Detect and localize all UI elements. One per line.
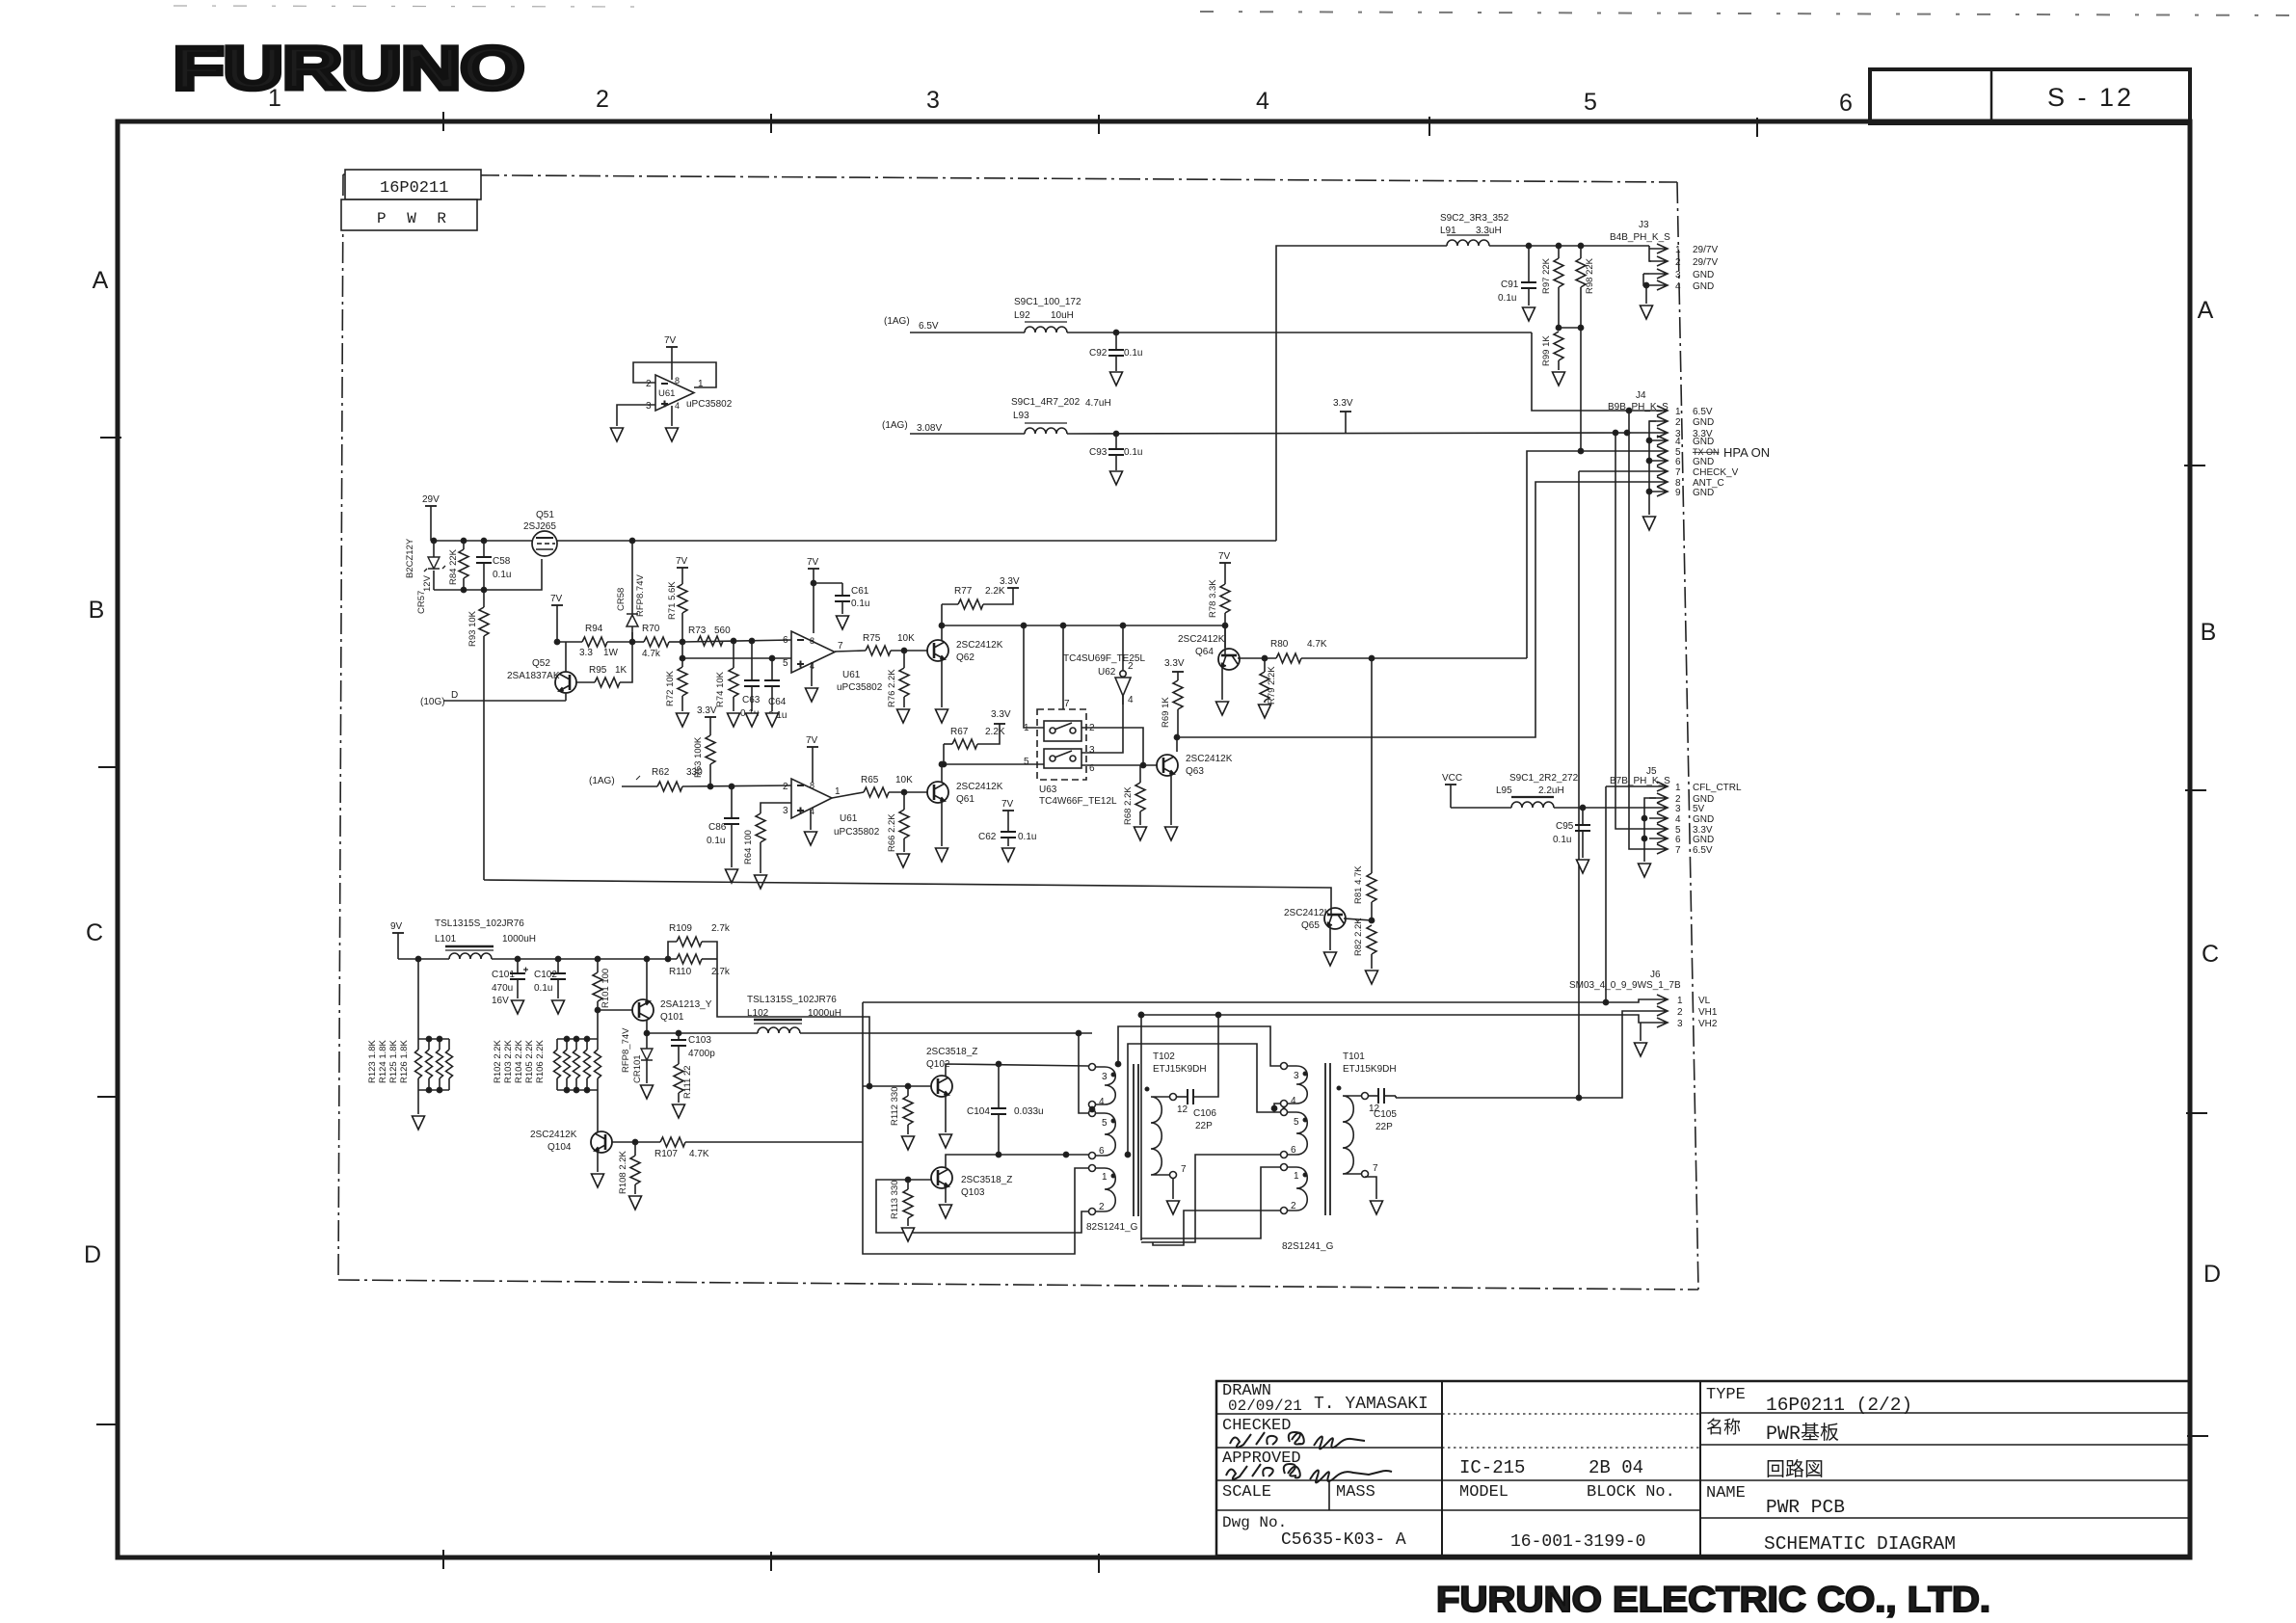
- resistor R108 2.2K: [618, 1142, 640, 1194]
- svg-text:22P: 22P: [1195, 1121, 1213, 1131]
- wire Q63 emitter to ground: [1170, 776, 1172, 825]
- svg-text:CR58: CR58: [616, 588, 627, 611]
- svg-text:回路図: 回路図: [1766, 1458, 1824, 1482]
- capacitor C103 4700p: [671, 1033, 715, 1064]
- svg-text:R98 22K: R98 22K: [1585, 257, 1595, 294]
- wire plus line: [682, 642, 791, 658]
- resistor R98 22K: [1576, 246, 1595, 451]
- svg-text:Q101: Q101: [660, 1012, 684, 1023]
- primary winding 3-4: [1281, 1063, 1288, 1070]
- svg-text:5: 5: [783, 658, 788, 669]
- svg-text:7V: 7V: [550, 594, 563, 604]
- svg-text:U62: U62: [1098, 667, 1116, 678]
- svg-text:Q52: Q52: [532, 658, 550, 669]
- wire VH2 line from C106: [1141, 1015, 1649, 1097]
- inductor L92 10uH: [1014, 297, 1081, 333]
- ground: [1553, 372, 1565, 386]
- svg-text:1: 1: [1102, 1172, 1108, 1183]
- wire 6.5V rail: [910, 333, 1649, 411]
- svg-text:R78 3.3K: R78 3.3K: [1208, 579, 1218, 618]
- wire CHECK_V vertical: [1579, 471, 1649, 1097]
- svg-text:2.2K: 2.2K: [985, 586, 1005, 597]
- svg-text:5: 5: [1584, 89, 1597, 116]
- svg-text:C: C: [86, 919, 103, 946]
- wire U63 pin1 riser to bus: [1024, 625, 1044, 728]
- svg-text:J6: J6: [1650, 970, 1661, 980]
- svg-text:10uH: 10uH: [1051, 310, 1074, 321]
- wire Q102 emitter to ground: [945, 1097, 947, 1132]
- svg-text:Q104: Q104: [547, 1142, 572, 1153]
- svg-text:R70: R70: [642, 624, 660, 634]
- wire drive sub-box outline: [863, 1002, 1088, 1254]
- svg-text:SCHEMATIC DIAGRAM: SCHEMATIC DIAGRAM: [1764, 1533, 1956, 1555]
- wire U63 pin6 to Q63 base: [1081, 764, 1157, 766]
- resistor R70 4.7k: [632, 624, 682, 659]
- transistor Q62 2SC2412K: [927, 640, 1003, 663]
- svg-text:82S1241_G: 82S1241_G: [1086, 1222, 1138, 1233]
- svg-text:R124 1.8K: R124 1.8K: [378, 1039, 388, 1083]
- svg-text:2SC2412K: 2SC2412K: [530, 1130, 577, 1140]
- right ticks: [2184, 466, 2208, 1436]
- svg-text:1: 1: [1675, 407, 1681, 417]
- svg-text:TC4SU69F_TE25L: TC4SU69F_TE25L: [1063, 653, 1145, 664]
- middle column dotted: [1442, 1413, 1700, 1415]
- svg-text:7V: 7V: [806, 735, 818, 746]
- svg-text:R123 1.8K: R123 1.8K: [367, 1039, 378, 1083]
- svg-text:C5635-K03- A: C5635-K03- A: [1281, 1530, 1406, 1550]
- resistor R77 2.2K: [942, 586, 1013, 609]
- svg-text:3: 3: [783, 806, 788, 816]
- wire Q102 collector to T102 pin3: [946, 1064, 1088, 1076]
- node 7V supply for U61: [664, 335, 678, 380]
- transistor Q103 2SC3518_Z: [931, 1167, 1012, 1198]
- svg-text:3.3: 3.3: [579, 648, 593, 658]
- svg-text:7V: 7V: [1218, 551, 1231, 562]
- svg-text:2SA1213_Y: 2SA1213_Y: [660, 999, 712, 1010]
- resistor R81 4.7K: [1353, 658, 1376, 920]
- svg-text:8: 8: [675, 376, 680, 386]
- svg-text:HPA ON: HPA ON: [1723, 445, 1770, 460]
- svg-text:CR57: CR57: [416, 591, 427, 614]
- svg-text:C61: C61: [851, 586, 869, 597]
- capacitor C61 0.1u: [814, 583, 869, 614]
- svg-text:TC4W66F_TE12L: TC4W66F_TE12L: [1039, 796, 1117, 807]
- svg-text:29/7V: 29/7V: [1693, 245, 1718, 255]
- svg-text:560: 560: [714, 625, 731, 636]
- svg-text:B7B_PH_K_S: B7B_PH_K_S: [1610, 776, 1670, 786]
- wire output: [832, 792, 864, 798]
- svg-text:C104: C104: [967, 1106, 990, 1117]
- svg-text:4.7uH: 4.7uH: [1085, 398, 1111, 409]
- svg-text:Q51: Q51: [536, 510, 554, 520]
- ground: [1523, 307, 1535, 321]
- svg-text:VH1: VH1: [1698, 1007, 1718, 1018]
- resistor R97 22K: [1541, 246, 1563, 328]
- svg-text:7: 7: [1181, 1164, 1187, 1175]
- node 3.3V tap: [1333, 398, 1353, 433]
- svg-text:R126 1.8K: R126 1.8K: [399, 1039, 410, 1083]
- svg-text:2SC2412K: 2SC2412K: [1284, 908, 1331, 918]
- svg-text:R113 330: R113 330: [890, 1181, 900, 1220]
- node 29V supply: [422, 494, 440, 541]
- svg-text:2SC2412K: 2SC2412K: [956, 640, 1003, 651]
- node 3.3V: [1000, 576, 1020, 588]
- resistor R99 1K: [1541, 332, 1563, 370]
- svg-text:(1AG): (1AG): [884, 316, 910, 327]
- svg-text:C: C: [2202, 941, 2219, 968]
- svg-text:6: 6: [1839, 90, 1853, 117]
- inverter U62 TC4SU69F_TE25L: [1063, 625, 1145, 705]
- wire Q62 collector bus to R78 node: [942, 625, 1225, 626]
- svg-text:29/7V: 29/7V: [1693, 257, 1718, 268]
- svg-text:C95: C95: [1556, 821, 1574, 832]
- wire 6.5V drop to J5 pin7: [1629, 411, 1649, 849]
- ground: [611, 428, 624, 441]
- svg-text:3: 3: [1675, 804, 1681, 814]
- svg-text:D: D: [2203, 1261, 2221, 1288]
- wire T101 pin2 loop: [1153, 1211, 1280, 1245]
- svg-text:Q61: Q61: [956, 794, 974, 805]
- node 7V: [676, 556, 688, 584]
- svg-text:3.3V: 3.3V: [1333, 398, 1353, 409]
- resistor R75 10K: [863, 633, 927, 655]
- resistor R74 10K: [715, 641, 738, 711]
- connector J4 B9B_PH_K_S: [1608, 390, 1770, 530]
- svg-text:0.1u: 0.1u: [1553, 835, 1571, 845]
- svg-text:L93: L93: [1013, 411, 1029, 421]
- svg-text:6.5V: 6.5V: [1693, 407, 1713, 417]
- svg-text:R107: R107: [654, 1149, 678, 1159]
- resistor R73 560: [688, 625, 731, 646]
- svg-text:5V: 5V: [1693, 804, 1705, 814]
- svg-text:4.7K: 4.7K: [689, 1149, 709, 1159]
- polarity dots: [1111, 1073, 1114, 1076]
- core: [1324, 1063, 1326, 1215]
- column lines: [1441, 1381, 1443, 1556]
- svg-text:R105 2.2K: R105 2.2K: [524, 1039, 535, 1083]
- ground: [1366, 971, 1378, 984]
- svg-text:A: A: [2198, 297, 2214, 324]
- svg-text:S9C1_100_172: S9C1_100_172: [1014, 297, 1081, 307]
- node 3.3V: [991, 709, 1011, 724]
- resistor R112 330: [890, 1086, 913, 1134]
- svg-text:C101: C101: [492, 970, 515, 980]
- svg-text:3: 3: [1089, 745, 1095, 756]
- wire 29V rail to L91: [1276, 246, 1447, 541]
- gnd bracket pins 2,4,6,9: [1649, 421, 1656, 515]
- svg-text:S9C1_4R7_202: S9C1_4R7_202: [1011, 397, 1081, 408]
- junction: [731, 638, 735, 643]
- svg-text:R63 100K: R63 100K: [693, 736, 704, 778]
- primary winding 1-2: [1281, 1164, 1288, 1171]
- capacitor C92 0.1u: [1089, 333, 1142, 371]
- svg-text:R125 1.8K: R125 1.8K: [388, 1039, 399, 1083]
- svg-text:R71 5.6K: R71 5.6K: [667, 581, 678, 620]
- svg-text:0.033u: 0.033u: [1014, 1106, 1044, 1117]
- resistor R101 100: [593, 959, 611, 1010]
- svg-text:(10G): (10G): [420, 697, 445, 707]
- wire Q65 collector: [1344, 918, 1372, 920]
- svg-text:2: 2: [783, 782, 788, 792]
- node 7V with C62: [1001, 799, 1014, 832]
- wire feedback loop U61: [617, 362, 716, 426]
- wire Q64 base from bus: [1224, 625, 1226, 655]
- svg-text:T. YAMASAKI: T. YAMASAKI: [1314, 1395, 1428, 1414]
- ground: [766, 713, 779, 727]
- svg-text:R111 22: R111 22: [682, 1065, 693, 1099]
- junction: [431, 538, 436, 543]
- wire T102 pin5 drive from L102: [1079, 1033, 1088, 1113]
- svg-text:CR101: CR101: [632, 1054, 643, 1083]
- svg-text:4: 4: [1675, 814, 1681, 825]
- capacitor C106 22P: [1177, 1089, 1216, 1131]
- 16P0211 / PWR label boxes: [341, 170, 481, 230]
- svg-text:9V: 9V: [390, 921, 403, 932]
- svg-text:2: 2: [1099, 1202, 1105, 1212]
- svg-text:VCC: VCC: [1442, 773, 1462, 784]
- wire 29V rail: [431, 540, 1276, 542]
- svg-text:6: 6: [1675, 835, 1681, 845]
- wire op-amp V- to ground: [810, 810, 812, 830]
- svg-text:0.1u: 0.1u: [1018, 832, 1036, 842]
- ground: [837, 616, 849, 629]
- svg-text:2: 2: [1675, 417, 1681, 428]
- resistor R72 10K: [665, 658, 687, 711]
- ground: [1135, 827, 1147, 840]
- svg-text:NAME: NAME: [1706, 1484, 1746, 1503]
- resistor bank R102-R106 2.2K: [493, 1010, 601, 1131]
- wire ANT_C line from Q63 collector: [1177, 482, 1649, 737]
- svg-text:7V: 7V: [664, 335, 677, 346]
- ground: [666, 428, 679, 441]
- svg-text:2: 2: [1128, 661, 1134, 672]
- svg-text:S9C1_2R2_272: S9C1_2R2_272: [1509, 773, 1579, 784]
- svg-text:GND: GND: [1693, 814, 1714, 825]
- svg-text:R80: R80: [1270, 639, 1289, 650]
- svg-text:7: 7: [1675, 467, 1681, 478]
- svg-text:VL: VL: [1698, 996, 1711, 1006]
- svg-text:0.1u: 0.1u: [534, 983, 552, 994]
- ground: [726, 869, 738, 883]
- svg-text:2: 2: [1675, 257, 1681, 268]
- wire Q101 emitter up to rail / collector down: [646, 959, 648, 1033]
- svg-text:FURUNO ELECTRIC CO., LTD.: FURUNO ELECTRIC CO., LTD.: [1436, 1580, 1990, 1619]
- svg-text:6.5V: 6.5V: [1693, 845, 1713, 856]
- svg-text:C103: C103: [688, 1035, 711, 1046]
- scan noise top: [174, 6, 2296, 15]
- primary winding 3-4: [1089, 1064, 1096, 1071]
- svg-text:(1AG): (1AG): [882, 420, 908, 431]
- svg-text:R66 2.2K: R66 2.2K: [887, 813, 897, 852]
- polarity dots: [1303, 1072, 1306, 1075]
- svg-text:2SC3518_Z: 2SC3518_Z: [961, 1175, 1012, 1185]
- secondary winding 12-7: [1151, 1097, 1169, 1175]
- wire R101 to Q101 base: [598, 1009, 632, 1011]
- transistor Q64 2SC2412K: [1178, 634, 1240, 670]
- ground: [1110, 471, 1123, 485]
- ground: [1259, 705, 1271, 718]
- transformer T102 ETJ15K9DH: [1089, 1051, 1207, 1216]
- svg-text:R97 22K: R97 22K: [1541, 257, 1552, 294]
- svg-text:C91: C91: [1501, 279, 1519, 290]
- svg-text:SCALE: SCALE: [1222, 1483, 1271, 1502]
- svg-text:名称: 名称: [1706, 1418, 1741, 1439]
- svg-text:IC-215: IC-215: [1459, 1457, 1525, 1478]
- wire HPA ON to J4 pin5: [1527, 451, 1649, 658]
- svg-text:R93 10K: R93 10K: [467, 610, 478, 647]
- svg-text:0.1u: 0.1u: [1498, 293, 1516, 304]
- resistor R78 3.3K: [1208, 579, 1230, 648]
- svg-text:uPC35802: uPC35802: [837, 682, 883, 693]
- svg-text:R62: R62: [652, 767, 670, 778]
- svg-text:82S1241_G: 82S1241_G: [1282, 1241, 1334, 1252]
- right column rows: [1700, 1412, 2190, 1414]
- svg-text:J3: J3: [1639, 220, 1649, 230]
- transformer T101 ETJ15K9DH: [1281, 1051, 1397, 1215]
- svg-text:4: 4: [1099, 1097, 1105, 1107]
- svg-text:29V: 29V: [422, 494, 440, 505]
- wire T101 pin1 loop: [1141, 1167, 1280, 1238]
- wire Q65 base feed: [484, 880, 1331, 915]
- svg-text:B2CZ12Y: B2CZ12Y: [405, 538, 415, 578]
- svg-text:8: 8: [810, 636, 814, 646]
- resistor R107 4.7K: [654, 1137, 863, 1159]
- node 3.3V for R69: [1164, 658, 1185, 680]
- inductor L101 1000uH: [435, 918, 536, 959]
- svg-text:9: 9: [1675, 488, 1681, 498]
- svg-text:C102: C102: [534, 970, 557, 980]
- wire 3.3V drop to J5 pin5: [1615, 433, 1649, 829]
- capacitor C58 0.1u: [476, 541, 511, 590]
- svg-text:2.2uH: 2.2uH: [1538, 785, 1564, 796]
- transistor Q102 2SC3518_Z: [926, 1047, 977, 1097]
- wire U63 pin7 to bus: [1062, 625, 1064, 709]
- svg-text:4: 4: [1128, 695, 1134, 705]
- svg-text:L92: L92: [1014, 310, 1030, 321]
- resistor R65 10K: [861, 775, 927, 797]
- svg-text:Q103: Q103: [961, 1187, 985, 1198]
- resistor R113 330: [890, 1180, 913, 1226]
- svg-text:uPC35802: uPC35802: [834, 827, 880, 838]
- svg-text:7V: 7V: [1001, 799, 1014, 810]
- wire Q103 base loop: [876, 1180, 1088, 1233]
- svg-text:7: 7: [1675, 845, 1681, 856]
- svg-text:L95: L95: [1496, 785, 1512, 796]
- wire L102 to transformer drive: [800, 1032, 1092, 1034]
- transistor Q65 2SC2412K: [1284, 908, 1346, 931]
- svg-text:R102 2.2K: R102 2.2K: [493, 1039, 503, 1083]
- wire Q104 base line: [612, 1141, 660, 1143]
- svg-text:4.7K: 4.7K: [1307, 639, 1327, 650]
- wire VL line: [863, 999, 1649, 1002]
- svg-text:3: 3: [1677, 1019, 1683, 1029]
- node 7V: [550, 594, 563, 642]
- wire Q104 emitter to ground: [597, 1153, 599, 1172]
- svg-text:L91: L91: [1440, 226, 1456, 236]
- svg-text:D: D: [451, 690, 458, 701]
- svg-text:R108 2.2K: R108 2.2K: [618, 1150, 628, 1194]
- diode CR101 RFP8_74V: [621, 1027, 653, 1083]
- wire op-amp output: [835, 651, 866, 652]
- wire op-amp V- to ground: [811, 662, 813, 686]
- svg-text:8: 8: [810, 781, 814, 790]
- wire Q64 emitter to ground: [1221, 667, 1223, 700]
- svg-text:SM03_4_0_9_9WS_1_7B: SM03_4_0_9_9WS_1_7B: [1569, 980, 1681, 991]
- svg-text:U61: U61: [840, 813, 858, 824]
- svg-text:GND: GND: [1693, 835, 1714, 845]
- wire V- to ground: [671, 406, 673, 426]
- svg-text:1: 1: [835, 786, 841, 797]
- svg-text:J4: J4: [1636, 390, 1646, 401]
- svg-text:R94: R94: [585, 624, 603, 634]
- svg-text:2.7k: 2.7k: [711, 967, 731, 977]
- ground: [1002, 848, 1015, 862]
- svg-text:VH2: VH2: [1698, 1019, 1718, 1029]
- svg-text:R67: R67: [950, 727, 969, 737]
- svg-text:4: 4: [1291, 1096, 1296, 1106]
- wire zener block bottom rail: [434, 559, 542, 590]
- transistor Q104 2SC2412K: [530, 1130, 612, 1153]
- svg-text:S - 12: S - 12: [2047, 83, 2134, 112]
- resistor R62 330: [652, 767, 791, 791]
- svg-text:6.5V: 6.5V: [919, 321, 939, 332]
- svg-text:(1AG): (1AG): [589, 776, 615, 786]
- svg-text:16V: 16V: [492, 996, 509, 1006]
- svg-text:R81 4.7K: R81 4.7K: [1353, 865, 1364, 904]
- wire T101 pin6 loop: [1141, 1155, 1280, 1242]
- wire minus line: [682, 640, 791, 642]
- analog switch U63 dashed box: [1024, 699, 1117, 807]
- svg-text:5: 5: [1024, 757, 1029, 767]
- svg-text:1: 1: [1294, 1171, 1299, 1182]
- svg-text:U61: U61: [842, 670, 861, 680]
- svg-text:R109: R109: [669, 923, 692, 934]
- svg-text:uPC35802: uPC35802: [686, 399, 733, 410]
- junction: [1369, 655, 1374, 660]
- svg-text:TSL1315S_102JR76: TSL1315S_102JR76: [435, 918, 524, 929]
- svg-text:R95: R95: [589, 665, 607, 676]
- svg-text:6: 6: [783, 635, 788, 646]
- svg-text:1: 1: [1675, 783, 1681, 793]
- svg-text:R77: R77: [954, 586, 973, 597]
- svg-text:TSL1315S_102JR76: TSL1315S_102JR76: [747, 995, 837, 1005]
- svg-text:0.1u: 0.1u: [707, 836, 725, 846]
- capacitor C63 0.1u: [740, 641, 761, 719]
- capacitor C91 0.1u: [1498, 246, 1536, 306]
- svg-text:7: 7: [1373, 1163, 1378, 1174]
- capacitor C93 0.1u: [1089, 434, 1142, 470]
- svg-text:2: 2: [1677, 1007, 1683, 1018]
- core: [1133, 1064, 1135, 1216]
- svg-text:R99 1K: R99 1K: [1541, 335, 1552, 366]
- svg-text:S9C2_3R3_352: S9C2_3R3_352: [1440, 213, 1509, 224]
- grid numbers top: [268, 85, 1853, 117]
- svg-text:A: A: [93, 267, 109, 294]
- ground: [1577, 860, 1589, 873]
- op-amp U61: [646, 375, 733, 412]
- svg-text:CHECK_V: CHECK_V: [1693, 467, 1739, 478]
- svg-text:GND: GND: [1693, 270, 1714, 280]
- svg-text:02/09/21: 02/09/21: [1228, 1397, 1302, 1415]
- inner dash-dot boundary: [338, 174, 1698, 1290]
- svg-text:PWR基板: PWR基板: [1766, 1422, 1839, 1446]
- svg-text:L101: L101: [435, 934, 457, 945]
- svg-text:0.1u: 0.1u: [1124, 348, 1142, 359]
- resistor R63 100K: [693, 735, 715, 786]
- svg-text:Dwg No.: Dwg No.: [1222, 1514, 1287, 1531]
- svg-text:R106 2.2K: R106 2.2K: [535, 1039, 546, 1083]
- junction: [1113, 431, 1118, 436]
